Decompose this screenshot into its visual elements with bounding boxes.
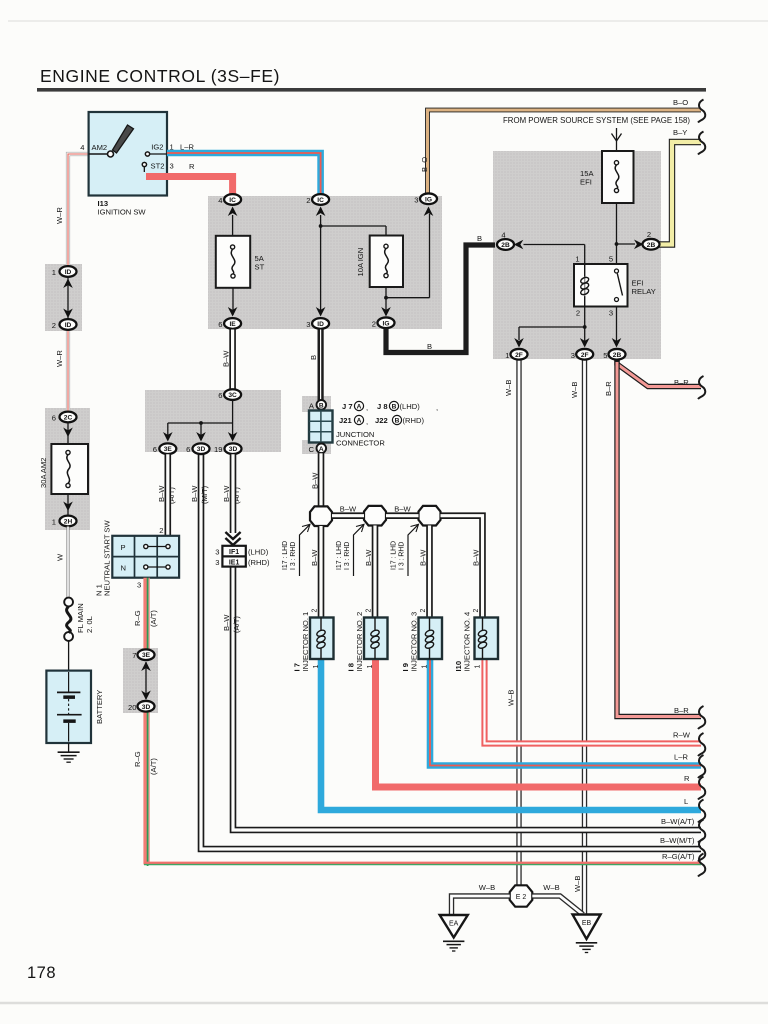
svg-text:1: 1 xyxy=(313,665,320,669)
wire 2 IC down to 3 1D with branch xyxy=(316,215,386,317)
svg-text:FROM POWER SOURCE SYSTEM (SEE: FROM POWER SOURCE SYSTEM (SEE PAGE 158) xyxy=(503,116,690,125)
wire B-W octagon3 to injector no.3 xyxy=(419,526,430,619)
svg-text:INJECTOR NO. 4: INJECTOR NO. 4 xyxy=(463,612,472,672)
svg-text:CONNECTOR: CONNECTOR xyxy=(336,439,385,448)
fuse 5A ST xyxy=(216,215,265,288)
svg-text:2: 2 xyxy=(306,196,310,205)
connector 2 IG xyxy=(372,317,395,328)
wire B-W(M/T) from 6 3D to right exit xyxy=(201,454,705,862)
svg-text:L–R: L–R xyxy=(180,143,194,152)
note I17:LHD I3:RHD octagon2 xyxy=(336,524,364,576)
svg-text:2B: 2B xyxy=(647,242,656,249)
svg-text:2. 0L: 2. 0L xyxy=(85,616,94,633)
svg-text:10A IGN: 10A IGN xyxy=(356,248,365,277)
svg-text:2: 2 xyxy=(312,609,319,613)
svg-text:3E: 3E xyxy=(142,652,151,659)
wire R-G(A/T) NSW to 7 3E xyxy=(133,578,158,649)
svg-text:B–W: B–W xyxy=(222,614,231,631)
page top rule xyxy=(8,20,768,22)
svg-text:4: 4 xyxy=(80,143,84,152)
svg-text:B–W: B–W xyxy=(222,485,231,502)
wire L from injector no.1 to right exit xyxy=(321,658,705,823)
wire W-B from 3 2F down to EB xyxy=(570,360,585,916)
svg-text:3E: 3E xyxy=(164,446,173,453)
svg-text:ID: ID xyxy=(65,322,72,329)
connector 1 2H xyxy=(52,516,77,527)
svg-text:(LHD): (LHD) xyxy=(400,402,421,411)
svg-text:3: 3 xyxy=(215,558,219,567)
svg-text:IC: IC xyxy=(229,197,236,204)
svg-text:I17 : LHD: I17 : LHD xyxy=(282,541,289,570)
wire B thick from 2 IG to 4 2B xyxy=(386,234,495,353)
ground node E2 xyxy=(510,885,533,906)
ground EB xyxy=(573,915,601,953)
svg-text:3D: 3D xyxy=(197,446,206,453)
injector no.3 (I9) xyxy=(401,609,442,672)
shaded EFI relay area xyxy=(493,151,661,359)
wire R-G(A/T) from 20 3D to right exit xyxy=(144,711,705,877)
relay outputs to 2F 2F 2B xyxy=(514,307,621,348)
connector 2 IC xyxy=(306,194,329,216)
wire W-B E2 to EA xyxy=(452,883,510,915)
connector 6 3D xyxy=(186,443,209,504)
svg-text:6: 6 xyxy=(52,414,56,423)
svg-text:3: 3 xyxy=(215,548,219,557)
svg-text:2: 2 xyxy=(366,609,373,613)
svg-text:INJECTOR NO. 3: INJECTOR NO. 3 xyxy=(410,612,419,672)
svg-text:INJECTOR NO. 1: INJECTOR NO. 1 xyxy=(301,612,310,672)
svg-text:IE: IE xyxy=(229,321,236,328)
svg-text:2B: 2B xyxy=(613,352,622,359)
svg-text:B–W: B–W xyxy=(310,549,319,566)
svg-text:1: 1 xyxy=(422,665,429,669)
svg-text:1: 1 xyxy=(367,665,374,669)
svg-text:I 3 : RHD: I 3 : RHD xyxy=(399,542,406,570)
svg-text:5: 5 xyxy=(603,351,607,360)
svg-text:B–R: B–R xyxy=(674,378,689,387)
svg-text:R–W: R–W xyxy=(673,731,691,740)
link fuse to 2H xyxy=(63,494,73,515)
connector 2 2B right xyxy=(643,230,660,250)
wire R-W from injector no.4 to right exit xyxy=(485,658,706,756)
svg-text:I 3 : RHD: I 3 : RHD xyxy=(344,542,351,570)
injector no.1 (I7) xyxy=(293,609,334,672)
svg-text:B–W: B–W xyxy=(340,505,357,514)
svg-text:B–R: B–R xyxy=(674,706,689,715)
svg-text:B: B xyxy=(392,404,397,411)
wire W-R between 2 1D and 6 2C xyxy=(55,330,68,412)
EFI relay xyxy=(574,255,656,318)
svg-text:A: A xyxy=(357,418,362,425)
svg-text:B–R: B–R xyxy=(604,381,613,396)
labels J7/J8/J21/J22 junction connector xyxy=(336,401,438,447)
connector 2 1D xyxy=(52,319,77,330)
connector 1 2F xyxy=(505,349,527,360)
svg-text:6: 6 xyxy=(218,391,222,400)
svg-text:(LHD): (LHD) xyxy=(248,548,269,557)
svg-text:W–B: W–B xyxy=(543,883,559,892)
connector 4 IC xyxy=(218,194,241,216)
svg-text:EB: EB xyxy=(582,920,592,927)
junction connector terminal C(A) xyxy=(309,444,327,455)
shaded fuse box area (main) xyxy=(208,196,442,329)
svg-text:IG: IG xyxy=(425,196,432,203)
svg-text:2F: 2F xyxy=(581,352,589,359)
svg-text:N: N xyxy=(121,564,126,573)
wire L-R from IG2 to 2 IC xyxy=(167,143,321,196)
battery xyxy=(46,671,104,743)
wire B-O (black/orange) top right xyxy=(420,98,705,196)
svg-text:I 7: I 7 xyxy=(293,663,302,671)
ground EA xyxy=(440,915,468,951)
svg-text:2C: 2C xyxy=(64,415,73,422)
svg-text:2F: 2F xyxy=(515,352,523,359)
svg-text:6: 6 xyxy=(186,445,190,454)
note I17:LHD I3:RHD octagon1 xyxy=(282,524,310,576)
svg-text:NEUTRAL START SW: NEUTRAL START SW xyxy=(103,520,112,596)
wire B from 3 1D to junction connector xyxy=(309,330,321,402)
wire B-W octagon1 to injector no.1 xyxy=(310,526,321,618)
octagon node 2 xyxy=(364,506,386,526)
octagon node 1 xyxy=(310,506,332,526)
svg-text:I 8: I 8 xyxy=(347,663,356,671)
svg-text:3: 3 xyxy=(414,195,418,204)
wire W-R from ignition AM2 down xyxy=(55,154,89,266)
svg-text:20: 20 xyxy=(128,703,136,712)
fuse 10A IGN xyxy=(356,236,403,288)
svg-text:B–W: B–W xyxy=(394,505,411,514)
wire W from 2H to fusible link main xyxy=(56,527,69,598)
shaded band 2C/30A AM2/2H xyxy=(45,408,90,530)
link fuse 10A to 2 IG and 3 IG xyxy=(381,207,433,317)
svg-text:4: 4 xyxy=(501,231,505,240)
connector 3 1D xyxy=(306,318,329,329)
svg-text:1: 1 xyxy=(505,351,509,360)
svg-text:R–G: R–G xyxy=(133,751,142,767)
svg-text:C: C xyxy=(309,445,315,454)
svg-text:IG2: IG2 xyxy=(151,143,163,152)
svg-text:2H: 2H xyxy=(64,519,73,526)
connector 7 3E xyxy=(132,649,154,660)
svg-text:EA: EA xyxy=(449,921,459,928)
svg-text:(RHD): (RHD) xyxy=(403,416,425,425)
svg-text:BATTERY: BATTERY xyxy=(95,690,104,724)
svg-text:IG: IG xyxy=(383,320,390,327)
connector 6 3E xyxy=(153,443,177,504)
svg-text:EFI: EFI xyxy=(580,178,592,187)
link 3E to 3D with arrows xyxy=(141,662,151,701)
svg-text:3: 3 xyxy=(170,162,174,171)
svg-text:(A/T): (A/T) xyxy=(232,616,241,633)
wire B-W from 6 1E to 6 3C xyxy=(222,330,233,391)
svg-text:R–G(A/T): R–G(A/T) xyxy=(662,852,695,861)
wire L-R from injector no.3 to right exit xyxy=(430,658,705,778)
svg-text:AM2: AM2 xyxy=(92,143,108,152)
svg-text:B–O: B–O xyxy=(673,98,688,107)
svg-text:6: 6 xyxy=(153,445,157,454)
wire B-W(A/T) 3E to NSW terminal 2 xyxy=(159,454,168,536)
svg-text:B: B xyxy=(319,402,324,409)
svg-text:3C: 3C xyxy=(228,392,237,399)
svg-text:W–B: W–B xyxy=(479,883,495,892)
svg-text:B–W: B–W xyxy=(190,485,199,502)
neutral start switch N1 xyxy=(95,520,180,596)
link 2C to fusible link xyxy=(63,423,73,445)
junction connector terminal A(B) xyxy=(309,400,326,411)
svg-text:I 9: I 9 xyxy=(401,663,410,671)
svg-text:3: 3 xyxy=(609,309,613,318)
svg-text:A: A xyxy=(357,404,362,411)
svg-text:W–B: W–B xyxy=(504,380,513,396)
svg-text:B: B xyxy=(395,418,400,425)
svg-text:ST: ST xyxy=(255,263,265,272)
injector no.4 (I10) xyxy=(454,609,498,672)
svg-text:W: W xyxy=(56,553,65,561)
connector link 1D pair with arrows xyxy=(63,277,73,319)
svg-text:INJECTOR NO. 2: INJECTOR NO. 2 xyxy=(355,612,364,672)
shaded band 3C/3E/3D xyxy=(145,390,281,452)
svg-text:J 8: J 8 xyxy=(377,402,388,411)
svg-text:IE1: IE1 xyxy=(229,560,240,567)
svg-text:(A/T): (A/T) xyxy=(149,758,158,775)
connector 20 3D xyxy=(128,701,154,712)
svg-text:IC: IC xyxy=(317,197,324,204)
svg-text:2: 2 xyxy=(473,609,480,613)
connector 4 2B left xyxy=(497,231,585,265)
wire B-W octagon2 to octagon3 xyxy=(386,505,419,516)
connector 6 3C xyxy=(218,389,241,400)
svg-text:B: B xyxy=(309,355,318,360)
svg-text:ID: ID xyxy=(317,321,324,328)
svg-text:(M/T): (M/T) xyxy=(200,485,209,504)
svg-text:W–B: W–B xyxy=(573,876,582,892)
svg-text:,: , xyxy=(366,417,368,426)
svg-text:,: , xyxy=(366,403,368,412)
svg-text:3D: 3D xyxy=(142,704,151,711)
shaded band junction connector A xyxy=(302,396,331,412)
svg-text:IGNITION SW: IGNITION SW xyxy=(98,208,147,217)
svg-text:1: 1 xyxy=(52,518,56,527)
svg-text:B–W: B–W xyxy=(472,549,481,566)
connector 3 IG xyxy=(414,193,437,204)
ignition switch I13 xyxy=(80,112,173,217)
svg-text:L: L xyxy=(684,797,688,806)
svg-text:FL MAIN: FL MAIN xyxy=(76,603,85,633)
svg-text:R: R xyxy=(189,162,195,171)
svg-text:2: 2 xyxy=(52,321,56,330)
svg-text:I10: I10 xyxy=(454,661,463,672)
fusible link 30A AM2 xyxy=(39,444,88,494)
wire B-R from 5 2B diagonal to right exit xyxy=(604,360,705,399)
svg-text:(RHD): (RHD) xyxy=(248,558,270,567)
injector no.2 (I8) xyxy=(347,609,388,672)
svg-text:B–W: B–W xyxy=(419,549,428,566)
svg-text:B–W(M/T): B–W(M/T) xyxy=(660,836,695,845)
svg-text:1: 1 xyxy=(575,255,579,264)
page bottom rule xyxy=(0,1002,768,1004)
svg-text:P: P xyxy=(121,543,126,552)
svg-text:2: 2 xyxy=(576,309,580,318)
svg-text:RELAY: RELAY xyxy=(632,287,656,296)
svg-text:J22: J22 xyxy=(375,416,388,425)
svg-text:R: R xyxy=(684,774,690,783)
svg-text:J 7: J 7 xyxy=(342,402,353,411)
svg-text:B–O: B–O xyxy=(420,157,429,172)
wire B-W octagon1 to octagon2 xyxy=(332,505,364,516)
wire B-R vertical run down to lower right exit xyxy=(617,360,705,729)
svg-text:ENGINE CONTROL (3S–FE): ENGINE CONTROL (3S–FE) xyxy=(40,66,280,86)
wire W-B from 1 2F down to E2 xyxy=(504,360,519,887)
link fuse to 6 1E xyxy=(228,288,238,317)
svg-text:1: 1 xyxy=(52,268,56,277)
svg-text:N 1: N 1 xyxy=(95,584,104,596)
svg-text:ST2: ST2 xyxy=(151,162,165,171)
wire B-W from C(A) to octagon node xyxy=(311,453,322,506)
svg-text:B–W: B–W xyxy=(222,350,231,367)
wire B-W octagon3 to injector no.4 xyxy=(441,516,483,618)
svg-text:2: 2 xyxy=(372,319,376,328)
svg-text:L–R: L–R xyxy=(674,753,688,762)
svg-text:W–R: W–R xyxy=(55,350,64,367)
connector 1 1D xyxy=(52,266,77,277)
svg-text:B–W(A/T): B–W(A/T) xyxy=(661,817,695,826)
svg-text:B–Y: B–Y xyxy=(673,128,687,137)
svg-text:W–B: W–B xyxy=(570,382,579,398)
svg-text:2: 2 xyxy=(420,609,427,613)
svg-text:1: 1 xyxy=(475,665,482,669)
svg-text:3: 3 xyxy=(306,320,310,329)
fuse 15A EFI xyxy=(580,151,634,203)
wire W-B E2 to EB xyxy=(532,883,583,915)
wire R from ST2 to 4 IC xyxy=(146,162,233,195)
svg-text:,: , xyxy=(436,403,438,412)
connector 5 2B xyxy=(603,349,625,360)
shaded band 3E/3D lower pair xyxy=(123,648,158,713)
feed arrow into 15A EFI xyxy=(612,128,622,151)
svg-text:E 2: E 2 xyxy=(516,894,527,901)
svg-text:I17 : LHD: I17 : LHD xyxy=(391,541,398,570)
svg-text:B–W: B–W xyxy=(311,472,320,489)
fusible link FL MAIN 2.0L xyxy=(64,598,94,641)
connector 19 3D xyxy=(214,443,241,504)
svg-text:J21: J21 xyxy=(339,416,352,425)
svg-text:I 3 : RHD: I 3 : RHD xyxy=(290,542,297,570)
svg-text:2: 2 xyxy=(159,526,163,535)
svg-text:IF1: IF1 xyxy=(229,549,239,556)
wire B-W octagon2 to injector no.2 xyxy=(364,526,375,619)
svg-text:B: B xyxy=(477,234,482,243)
svg-text:R–G: R–G xyxy=(133,610,142,626)
svg-text:W–R: W–R xyxy=(55,207,64,224)
svg-text:5: 5 xyxy=(609,255,613,264)
svg-text:30A AM2: 30A AM2 xyxy=(39,458,48,488)
octagon node 3 xyxy=(419,506,441,526)
svg-text:3: 3 xyxy=(137,581,141,590)
shaded band connector 1D pair xyxy=(45,264,82,331)
wire B-Y (black/yellow) right xyxy=(658,128,705,245)
svg-text:3D: 3D xyxy=(229,446,238,453)
wire B-W(A/T) from IF1/IE1 to right exit xyxy=(233,566,705,843)
wire B-W(A/T) 19 3D to IF1/IE1 xyxy=(225,454,240,545)
connector 3 2F xyxy=(571,349,593,360)
svg-text:B: B xyxy=(427,342,432,351)
svg-text:178: 178 xyxy=(27,964,56,982)
svg-text:2: 2 xyxy=(647,230,651,239)
connector 6 2C xyxy=(52,412,77,423)
connectors IF1(LHD)/IE1(RHD) xyxy=(215,546,270,633)
svg-text:19: 19 xyxy=(214,445,222,454)
note I17:LHD I3:RHD octagon3 xyxy=(391,524,419,576)
svg-text:ID: ID xyxy=(65,269,72,276)
title underline xyxy=(37,88,706,92)
svg-text:4: 4 xyxy=(218,196,222,205)
junction connector body xyxy=(309,411,333,443)
wire to battery xyxy=(68,641,70,671)
svg-text:I17 : LHD: I17 : LHD xyxy=(336,541,343,570)
svg-text:W–B: W–B xyxy=(507,690,516,706)
ground below battery xyxy=(58,743,80,762)
connector 6 1E xyxy=(218,318,241,329)
svg-text:(A/T): (A/T) xyxy=(149,610,158,627)
svg-text:6: 6 xyxy=(218,320,222,329)
wire from fuse to relay with 2B branch xyxy=(615,203,644,264)
wire R from injector no.2 to right exit xyxy=(376,658,706,800)
junction 3C to 3E/3D/3D xyxy=(163,400,237,441)
labels R-G (A/T) below 3D xyxy=(133,751,158,775)
shaded band junction connector C xyxy=(302,440,331,454)
ignition contacts overlay xyxy=(142,152,149,172)
svg-text:7: 7 xyxy=(132,651,136,660)
svg-text:A: A xyxy=(319,446,324,453)
svg-text:2B: 2B xyxy=(501,242,510,249)
svg-text:3: 3 xyxy=(571,351,575,360)
svg-text:B–W: B–W xyxy=(364,549,373,566)
